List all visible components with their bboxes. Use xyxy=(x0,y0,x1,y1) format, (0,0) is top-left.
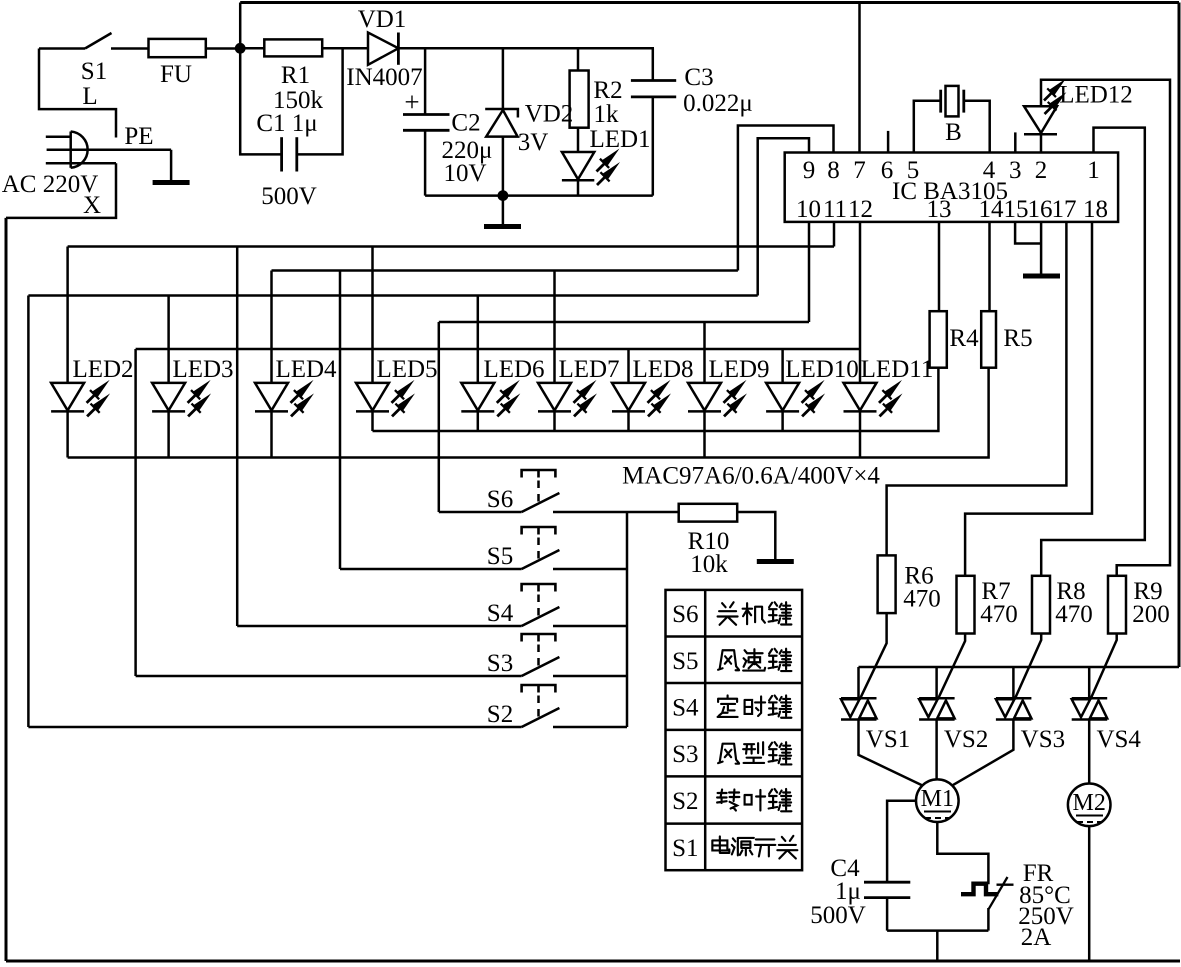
wire FU to node xyxy=(206,47,240,50)
resistor R1 xyxy=(240,47,264,50)
wire VS1 to M1 xyxy=(859,719,922,785)
wire VS2 to M1 xyxy=(935,719,938,778)
svg-text:12: 12 xyxy=(848,196,873,223)
svg-text:10V: 10V xyxy=(443,160,486,187)
bus 1 (pin11) xyxy=(68,245,834,248)
svg-text:C2: C2 xyxy=(451,110,480,137)
cathode bus B to R5 xyxy=(68,368,989,458)
svg-text:8: 8 xyxy=(827,157,840,184)
wire pin8 to key bus 2 xyxy=(738,126,834,271)
svg-text:LED9: LED9 xyxy=(708,356,769,383)
wire pin10 to key bus 5 xyxy=(808,222,811,322)
zener diode VD2 3V xyxy=(502,48,505,109)
key switch S6 xyxy=(439,511,522,514)
LED8 xyxy=(627,349,630,383)
thermal fuse FR xyxy=(961,884,998,895)
svg-text:500V: 500V xyxy=(810,902,866,929)
svg-text:470: 470 xyxy=(903,585,941,612)
svg-text:10: 10 xyxy=(796,196,821,223)
LED7 xyxy=(553,271,556,383)
svg-text:X: X xyxy=(83,192,101,219)
svg-text:LED4: LED4 xyxy=(275,356,337,383)
wire pin9 to key bus 3 xyxy=(758,138,809,295)
svg-text:VD2: VD2 xyxy=(525,101,574,128)
svg-text:470: 470 xyxy=(980,601,1018,628)
wire pin17 to R6 xyxy=(887,222,1067,556)
svg-text:VS3: VS3 xyxy=(1021,726,1065,753)
svg-text:PE: PE xyxy=(124,123,153,150)
svg-text:S4: S4 xyxy=(672,694,699,721)
wire to bottom rail xyxy=(936,931,939,961)
gate wire R6 to VS1 xyxy=(860,613,887,699)
svg-text:16: 16 xyxy=(1028,196,1053,223)
svg-text:0.022μ: 0.022μ xyxy=(683,90,753,117)
plug pin L xyxy=(46,136,71,139)
wire M1 to C4 xyxy=(887,801,915,883)
buzzer B (ceramic resonator) xyxy=(914,101,941,153)
wire pin18 to R7 xyxy=(965,222,1092,576)
resistor R9 200 xyxy=(1108,576,1126,634)
svg-text:5: 5 xyxy=(907,157,920,184)
svg-text:2A: 2A xyxy=(1021,924,1052,951)
svg-text:VS1: VS1 xyxy=(866,726,910,753)
svg-text:LED2: LED2 xyxy=(72,356,133,383)
wire pin15/16 to ground xyxy=(1015,222,1041,244)
key switch S2 xyxy=(28,726,521,729)
LED10 xyxy=(781,349,784,383)
bus 4 (pin12) xyxy=(136,348,860,351)
LED1 xyxy=(562,152,594,179)
top rail wire xyxy=(240,1,1179,4)
wire pin1 to R8 xyxy=(1041,128,1145,576)
switch S1 xyxy=(39,47,85,50)
ground (R10) xyxy=(757,560,794,563)
LED11 xyxy=(844,380,903,417)
common key output wire xyxy=(626,512,629,727)
LED12 xyxy=(1040,134,1043,152)
svg-text:L: L xyxy=(82,83,97,110)
svg-text:14: 14 xyxy=(979,196,1005,223)
supply ground rail xyxy=(425,194,653,197)
diode VD1 IN4007 xyxy=(368,33,398,65)
svg-text:C1 1μ: C1 1μ xyxy=(256,110,317,137)
svg-text:3V: 3V xyxy=(518,129,549,156)
bus 2 (pin8) xyxy=(272,269,738,272)
wire to ground xyxy=(502,196,505,225)
svg-text:1μ: 1μ xyxy=(835,878,861,905)
svg-text:1: 1 xyxy=(1087,157,1100,184)
resistor R7 470 xyxy=(957,576,975,634)
svg-text:R5: R5 xyxy=(1003,325,1032,352)
cathode bus A to R4 xyxy=(373,368,939,431)
svg-text:R2: R2 xyxy=(593,77,622,104)
wire L from S1 to plug xyxy=(39,49,116,138)
plug pin PE xyxy=(47,149,172,152)
resistor R2 1k xyxy=(577,48,580,70)
svg-text:M1: M1 xyxy=(921,786,954,812)
wire LED12 anode to R9 xyxy=(1041,80,1170,576)
svg-text:S6: S6 xyxy=(672,601,698,628)
capacitor C1 (parallel with R1) xyxy=(240,48,281,154)
svg-text:FU: FU xyxy=(160,61,192,88)
svg-text:10k: 10k xyxy=(690,551,728,578)
wire pin13 to R4 xyxy=(938,222,941,311)
ground (IC) xyxy=(1023,275,1060,278)
resistor R6 470 xyxy=(878,555,896,613)
svg-text:9: 9 xyxy=(803,157,816,184)
wire bus5 to S6 xyxy=(438,322,441,512)
svg-text:+: + xyxy=(404,87,419,117)
op-amp / IC U1 BA3105 xyxy=(785,153,1118,222)
svg-text:VS2: VS2 xyxy=(944,726,988,753)
svg-text:LED7: LED7 xyxy=(558,356,619,383)
pin 3 stub xyxy=(1014,132,1017,152)
svg-text:S2: S2 xyxy=(487,701,513,728)
svg-text:LED1: LED1 xyxy=(589,126,650,153)
pin 6 stub xyxy=(887,131,890,153)
key switch S5 xyxy=(340,568,522,571)
svg-text:MAC97A6/0.6A/400V×4: MAC97A6/0.6A/400V×4 xyxy=(622,463,880,490)
svg-text:7: 7 xyxy=(853,157,866,184)
wire VD1 to C3 branch xyxy=(398,47,654,50)
triac VS2 xyxy=(935,667,938,698)
svg-text:B: B xyxy=(945,119,962,146)
plug pin X xyxy=(46,162,116,165)
svg-text:VS4: VS4 xyxy=(1096,726,1141,753)
svg-text:LED10: LED10 xyxy=(785,356,859,383)
svg-text:S5: S5 xyxy=(487,543,513,570)
key switch S4 xyxy=(237,625,521,628)
LED9 xyxy=(703,322,706,383)
gate wire R8 to VS3 xyxy=(1015,634,1042,700)
wire node to top rail xyxy=(239,3,242,49)
svg-text:R4: R4 xyxy=(949,325,979,352)
LED2 xyxy=(66,247,69,383)
svg-text:3: 3 xyxy=(1009,157,1022,184)
svg-text:18: 18 xyxy=(1083,196,1108,223)
motor M1 xyxy=(916,779,959,822)
capacitor C3 0.022u xyxy=(652,48,655,80)
svg-text:VD1: VD1 xyxy=(358,6,407,33)
wire VS3 to M1 xyxy=(953,719,1014,785)
resistor R8 470 xyxy=(1032,576,1050,634)
junction dot on ground rail xyxy=(498,190,509,201)
wire PE to ground xyxy=(170,150,173,181)
resistor R5 xyxy=(981,311,996,368)
wire bus1 to S4 xyxy=(236,247,239,627)
LED3 xyxy=(167,296,170,383)
svg-text:S2: S2 xyxy=(672,788,698,815)
svg-text:470: 470 xyxy=(1055,601,1093,628)
junction node dot xyxy=(235,43,246,54)
wire pin7 to top rail xyxy=(858,3,861,153)
key switch S3 xyxy=(136,675,522,678)
svg-text:500V: 500V xyxy=(261,183,317,210)
C4/FR bottom wire xyxy=(887,929,988,932)
motor M2 xyxy=(1068,784,1111,827)
svg-text:S1: S1 xyxy=(672,835,698,862)
gate wire R7 to VS2 xyxy=(938,634,965,700)
wire X to left rail xyxy=(6,163,116,218)
capacitor C4 1u 500V xyxy=(864,881,910,884)
svg-text:LED6: LED6 xyxy=(483,356,544,383)
triac VS4 xyxy=(1088,667,1091,698)
svg-text:17: 17 xyxy=(1052,196,1077,223)
svg-text:C3: C3 xyxy=(684,64,713,91)
svg-text:LED8: LED8 xyxy=(632,356,693,383)
svg-text:LED12: LED12 xyxy=(1059,82,1133,109)
right rail wire xyxy=(1178,3,1181,668)
wire pin14 to R5 xyxy=(988,222,991,311)
wire pin11 to key bus 1 xyxy=(833,222,836,247)
gate wire R9 to VS4 xyxy=(1090,634,1116,700)
svg-text:15: 15 xyxy=(1004,196,1029,223)
svg-text:6: 6 xyxy=(881,157,894,184)
LED5 xyxy=(371,247,374,383)
triac VS1 xyxy=(857,667,860,698)
triac supply bus xyxy=(859,666,1180,669)
svg-text:200: 200 xyxy=(1132,601,1170,628)
ground (PE) xyxy=(153,181,190,184)
wire pin12 to key bus 4 / LED11 xyxy=(859,222,862,383)
svg-text:4: 4 xyxy=(983,157,996,184)
svg-text:S5: S5 xyxy=(672,648,698,675)
ground (supply) xyxy=(484,225,521,228)
bus 5 (pin10) xyxy=(439,321,809,324)
svg-text:S1: S1 xyxy=(81,58,107,85)
svg-text:S3: S3 xyxy=(487,650,513,677)
svg-text:LED3: LED3 xyxy=(172,356,233,383)
wire bus3 to S2 xyxy=(27,296,30,728)
mains plug symbol xyxy=(69,132,72,168)
left rail wire xyxy=(5,218,8,961)
svg-text:2: 2 xyxy=(1035,157,1048,184)
bottom rail wire xyxy=(6,959,1180,962)
LED4 xyxy=(270,271,273,383)
svg-text:S3: S3 xyxy=(672,741,698,768)
svg-text:13: 13 xyxy=(927,196,952,223)
wire M2 to bottom rail xyxy=(1088,827,1091,961)
bus 3 (pin9) xyxy=(28,294,757,297)
wire bus2 to S5 xyxy=(339,271,342,570)
svg-text:S6: S6 xyxy=(487,486,513,513)
triac VS3 xyxy=(1012,667,1015,698)
wire R10 to ground xyxy=(737,512,775,560)
svg-text:1k: 1k xyxy=(594,101,620,128)
wire bus4 to S3 xyxy=(134,349,137,676)
svg-text:LED5: LED5 xyxy=(376,356,437,383)
svg-text:11: 11 xyxy=(823,196,847,223)
fuse FU xyxy=(149,39,206,57)
LED6 xyxy=(477,296,480,383)
key legend table xyxy=(666,590,803,870)
svg-text:M2: M2 xyxy=(1073,790,1106,816)
svg-text:R1: R1 xyxy=(281,62,310,89)
resistor R10 10k xyxy=(679,504,738,522)
resistor R4 xyxy=(930,311,947,368)
svg-text:S4: S4 xyxy=(487,600,514,627)
svg-text:LED11: LED11 xyxy=(861,356,934,383)
wire M1 to FR xyxy=(937,822,988,884)
wire VS4 to M2 xyxy=(1088,719,1091,783)
capacitor C2 220u 10V (electrolytic) xyxy=(424,48,427,114)
